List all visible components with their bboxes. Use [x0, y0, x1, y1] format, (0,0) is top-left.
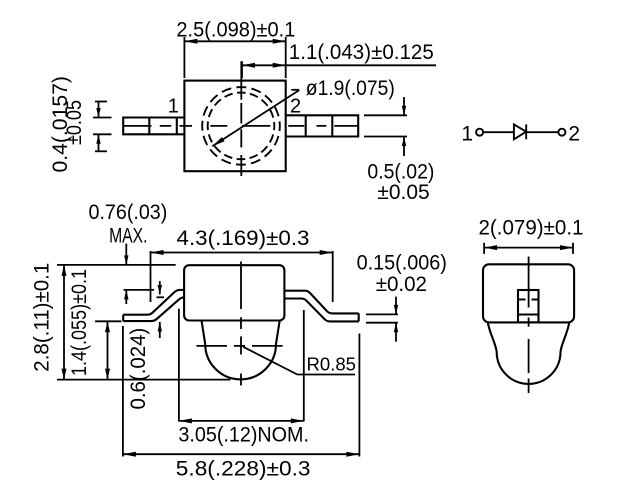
top view package body (square): [184, 81, 285, 172]
svg-text:1: 1: [168, 96, 179, 118]
svg-text:0.76(.03): 0.76(.03): [89, 201, 168, 224]
side view left lead (bent): [123, 290, 184, 321]
svg-text:0.15(.006): 0.15(.006): [357, 252, 447, 275]
diode terminal circle 2: [558, 129, 565, 136]
lead 1 divider a: [148, 118, 150, 135]
side view dome horizontal centerline: [196, 345, 284, 347]
front view vertical centerline: [528, 257, 530, 394]
svg-text:3.05(.12)NOM.: 3.05(.12)NOM.: [178, 424, 309, 447]
dimension 0.76(.03) MAX. leader: [57, 244, 176, 305]
svg-text:1: 1: [461, 123, 473, 146]
front view dome lens: [488, 322, 570, 384]
dimension 5.8(.228)±0.3: [123, 326, 360, 457]
diode cathode bar: [525, 124, 527, 139]
dimension 4.3(.169)±0.3: [151, 251, 333, 302]
top view vertical centerline: [240, 61, 242, 176]
dimension 0.6(.024): [157, 281, 165, 338]
leader arrowhead on lens circle: [212, 137, 224, 146]
dimension 2.5(.098)±0.1: [184, 37, 285, 78]
diode triangle: [514, 124, 526, 139]
front view lead divider upper (with center gap): [518, 298, 539, 300]
svg-text:1.1(.043)±0.125: 1.1(.043)±0.125: [289, 41, 434, 64]
front view package body: [483, 264, 574, 322]
svg-text:2: 2: [568, 123, 580, 146]
lead 1 divider b: [176, 118, 178, 135]
leader ø1.9(.075): [212, 90, 299, 147]
dimension 2(.079)±0.1: [484, 243, 573, 254]
front view lead end-on rectangle: [518, 290, 539, 322]
side view vertical centerline: [240, 262, 242, 386]
svg-text:±0.05: ±0.05: [377, 181, 429, 204]
lens outer dashed circle: [202, 87, 280, 165]
svg-text:2: 2: [290, 96, 301, 118]
svg-text:2.8(.11)±0.1: 2.8(.11)±0.1: [31, 263, 54, 372]
lead 2 divider b: [331, 115, 333, 136]
dimension 0.15(.006)±0.02: [366, 297, 398, 342]
lens inner dashed circle: [208, 93, 275, 160]
lead 2 divider a: [305, 115, 307, 136]
diode anode wire: [483, 131, 514, 133]
side view package body: [184, 265, 284, 320]
svg-text:ø1.9(.075): ø1.9(.075): [306, 77, 395, 100]
svg-text:R0.85: R0.85: [307, 355, 357, 375]
svg-text:±0.05: ±0.05: [63, 100, 86, 145]
leader R0.85: [243, 347, 355, 375]
side view right lead (bent): [284, 291, 358, 322]
svg-text:±0.02: ±0.02: [376, 273, 427, 296]
dimension 1.4(.055)±0.1: [95, 321, 121, 379]
diode terminal circle 1: [476, 129, 483, 136]
top view horizontal centerline: [123, 125, 358, 127]
dimension 3.05(.12)NOM.: [179, 309, 304, 422]
svg-text:0.6(.024): 0.6(.024): [127, 328, 150, 410]
svg-text:MAX.: MAX.: [109, 225, 147, 248]
svg-text:2.5(.098)±0.1: 2.5(.098)±0.1: [176, 19, 295, 42]
svg-text:5.8(.228)±0.3: 5.8(.228)±0.3: [176, 458, 311, 481]
dimension 2.8(.11)±0.1: [57, 265, 230, 380]
lead 1 (anode) outline: [123, 118, 184, 135]
svg-text:4.3(.169)±0.3: 4.3(.169)±0.3: [177, 227, 310, 250]
svg-text:2(.079)±0.1: 2(.079)±0.1: [479, 217, 584, 240]
svg-text:1.4(.055)±0.1: 1.4(.055)±0.1: [68, 269, 91, 376]
lead 2 (cathode) outline: [286, 115, 359, 136]
side view dome lens: [202, 321, 280, 380]
dimension 0.4(.0157)±0.05: [93, 102, 112, 152]
dimension 0.5(.02)±0.05: [364, 97, 407, 156]
dimension 1.1(.043)±0.125: [242, 61, 436, 78]
front view lead divider lower: [518, 313, 539, 315]
diode cathode wire: [526, 131, 558, 133]
